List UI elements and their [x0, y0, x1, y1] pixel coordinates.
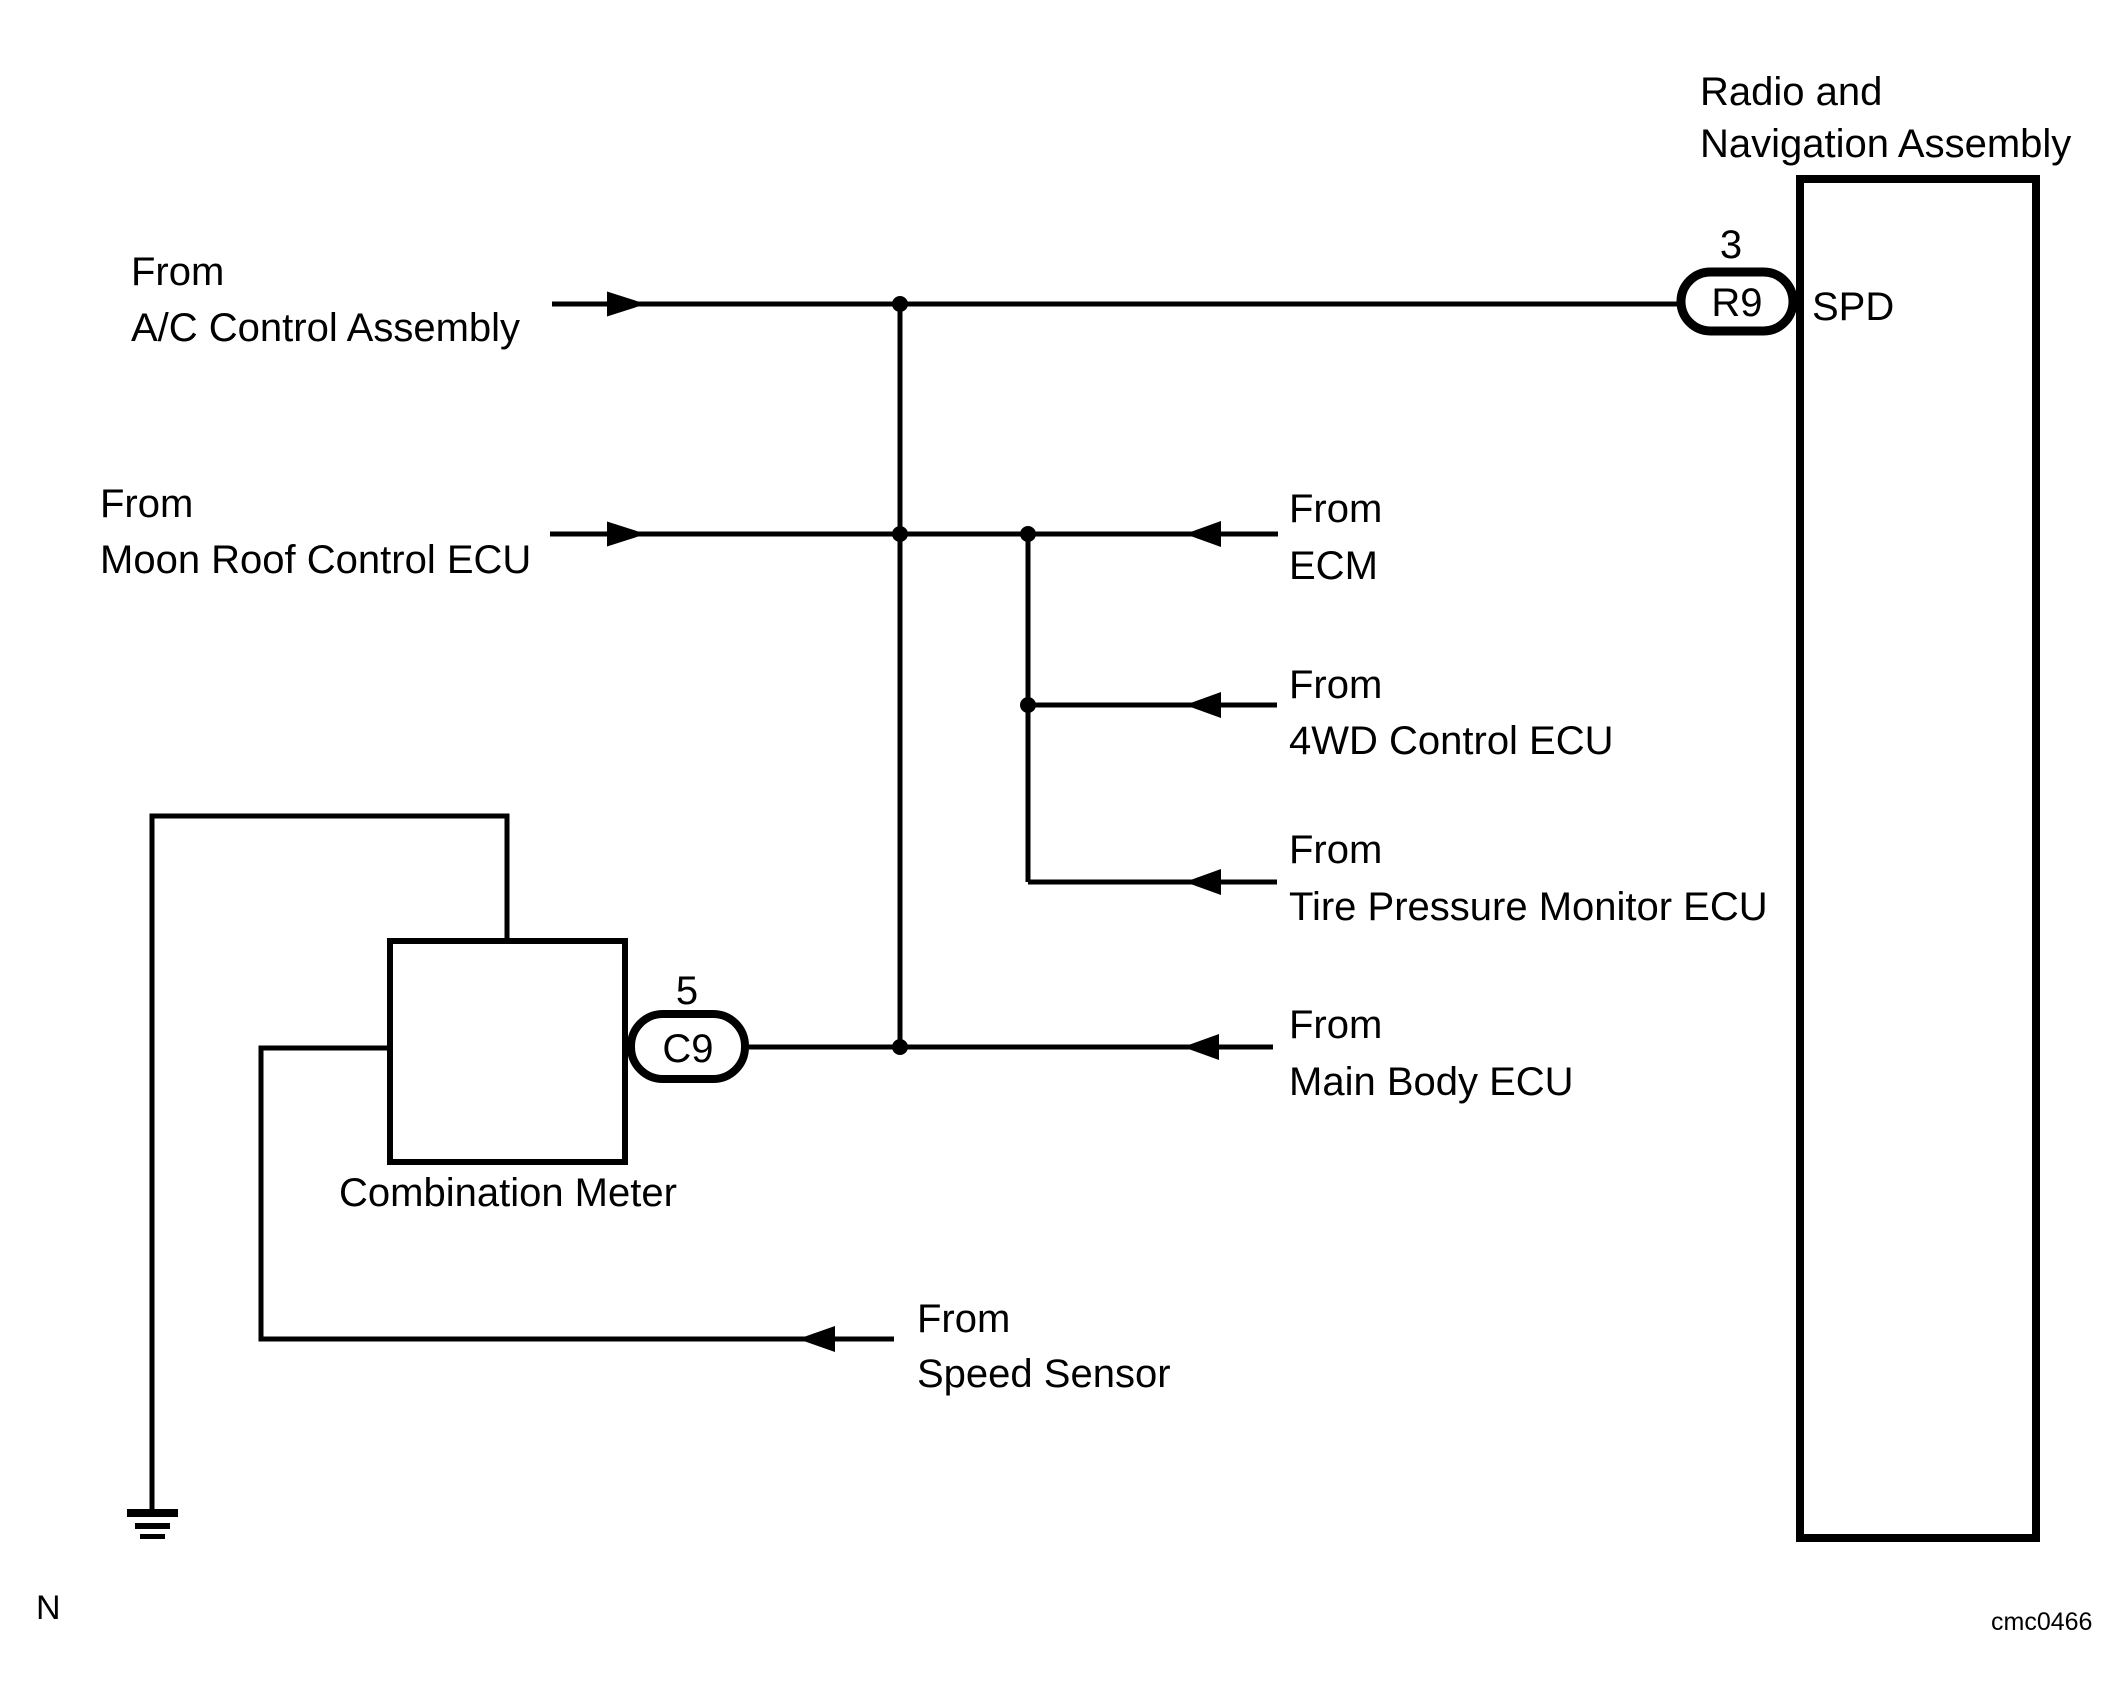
node junction A2 [892, 526, 908, 542]
node junction B2 [1020, 697, 1036, 713]
svg-text:Radio and: Radio and [1700, 70, 1882, 114]
label From Main Body ECU [1289, 1003, 1574, 1104]
connector R9 [1681, 272, 1793, 331]
node junction A1 [892, 296, 908, 312]
svg-text:From: From [917, 1297, 1010, 1341]
label From Tire Pressure Monitor ECU [1289, 828, 1768, 929]
wire from Tire Pressure Monitor ECU [1028, 880, 1277, 885]
svg-text:From: From [1289, 828, 1382, 872]
label From Speed Sensor [917, 1297, 1171, 1396]
svg-text:Main Body ECU: Main Body ECU [1289, 1060, 1574, 1104]
svg-text:From: From [1289, 487, 1382, 531]
svg-text:3: 3 [1720, 223, 1742, 267]
svg-text:From: From [100, 482, 193, 526]
label Radio and Navigation Assembly [1700, 70, 2071, 166]
svg-text:5: 5 [676, 969, 698, 1013]
arrow from 4WD [1185, 692, 1221, 718]
arrow from Main Body [1183, 1034, 1219, 1060]
Radio and Navigation Assembly block U1 [1800, 179, 2036, 1538]
combination meter box [390, 941, 625, 1162]
svg-text:SPD: SPD [1812, 285, 1894, 329]
label From ECM [1289, 487, 1382, 588]
svg-text:cmc0466: cmc0466 [1991, 1608, 2092, 1636]
svg-text:From: From [1289, 663, 1382, 707]
svg-text:A/C Control Assembly: A/C Control Assembly [131, 306, 520, 350]
svg-text:From: From [131, 250, 224, 294]
svg-text:Combination Meter: Combination Meter [339, 1171, 677, 1215]
ground [127, 1509, 178, 1539]
svg-text:Speed Sensor: Speed Sensor [917, 1352, 1171, 1396]
svg-text:From: From [1289, 1003, 1382, 1047]
svg-text:Navigation Assembly: Navigation Assembly [1700, 122, 2071, 166]
label From A/C Control Assembly [131, 250, 520, 350]
label From 4WD Control ECU [1289, 663, 1614, 763]
connector C9 [631, 1014, 745, 1079]
wire from Speed Sensor to meter left [261, 1048, 894, 1339]
wire vertical bus A [898, 304, 903, 1047]
svg-text:N: N [36, 1589, 61, 1627]
svg-text:R9: R9 [1711, 281, 1762, 325]
svg-text:ECM: ECM [1289, 544, 1378, 588]
wire from meter top to ground [152, 816, 507, 1509]
svg-text:Tire Pressure Monitor ECU: Tire Pressure Monitor ECU [1289, 885, 1768, 929]
arrow from Speed Sensor [798, 1326, 835, 1352]
wire from 4WD Control ECU [1028, 703, 1277, 708]
svg-text:4WD Control ECU: 4WD Control ECU [1289, 719, 1614, 763]
arrow on A/C wire [607, 292, 646, 317]
wire vertical bus B [1026, 534, 1031, 882]
node junction A3 [892, 1039, 908, 1055]
arrow on Moon Roof wire [607, 522, 646, 547]
arrow from ECM [1185, 521, 1221, 547]
svg-text:Moon Roof Control ECU: Moon Roof Control ECU [100, 538, 531, 582]
arrow from Tire Pressure [1185, 869, 1221, 895]
wire from Moon Roof Control ECU / ECM [550, 532, 1278, 537]
svg-text:C9: C9 [662, 1027, 713, 1071]
label From Moon Roof Control ECU [100, 482, 531, 582]
node junction B1 [1020, 526, 1036, 542]
wire from Main Body ECU to C9 [749, 1045, 1273, 1050]
wire from A/C Control Assembly to R9 [552, 302, 1681, 307]
